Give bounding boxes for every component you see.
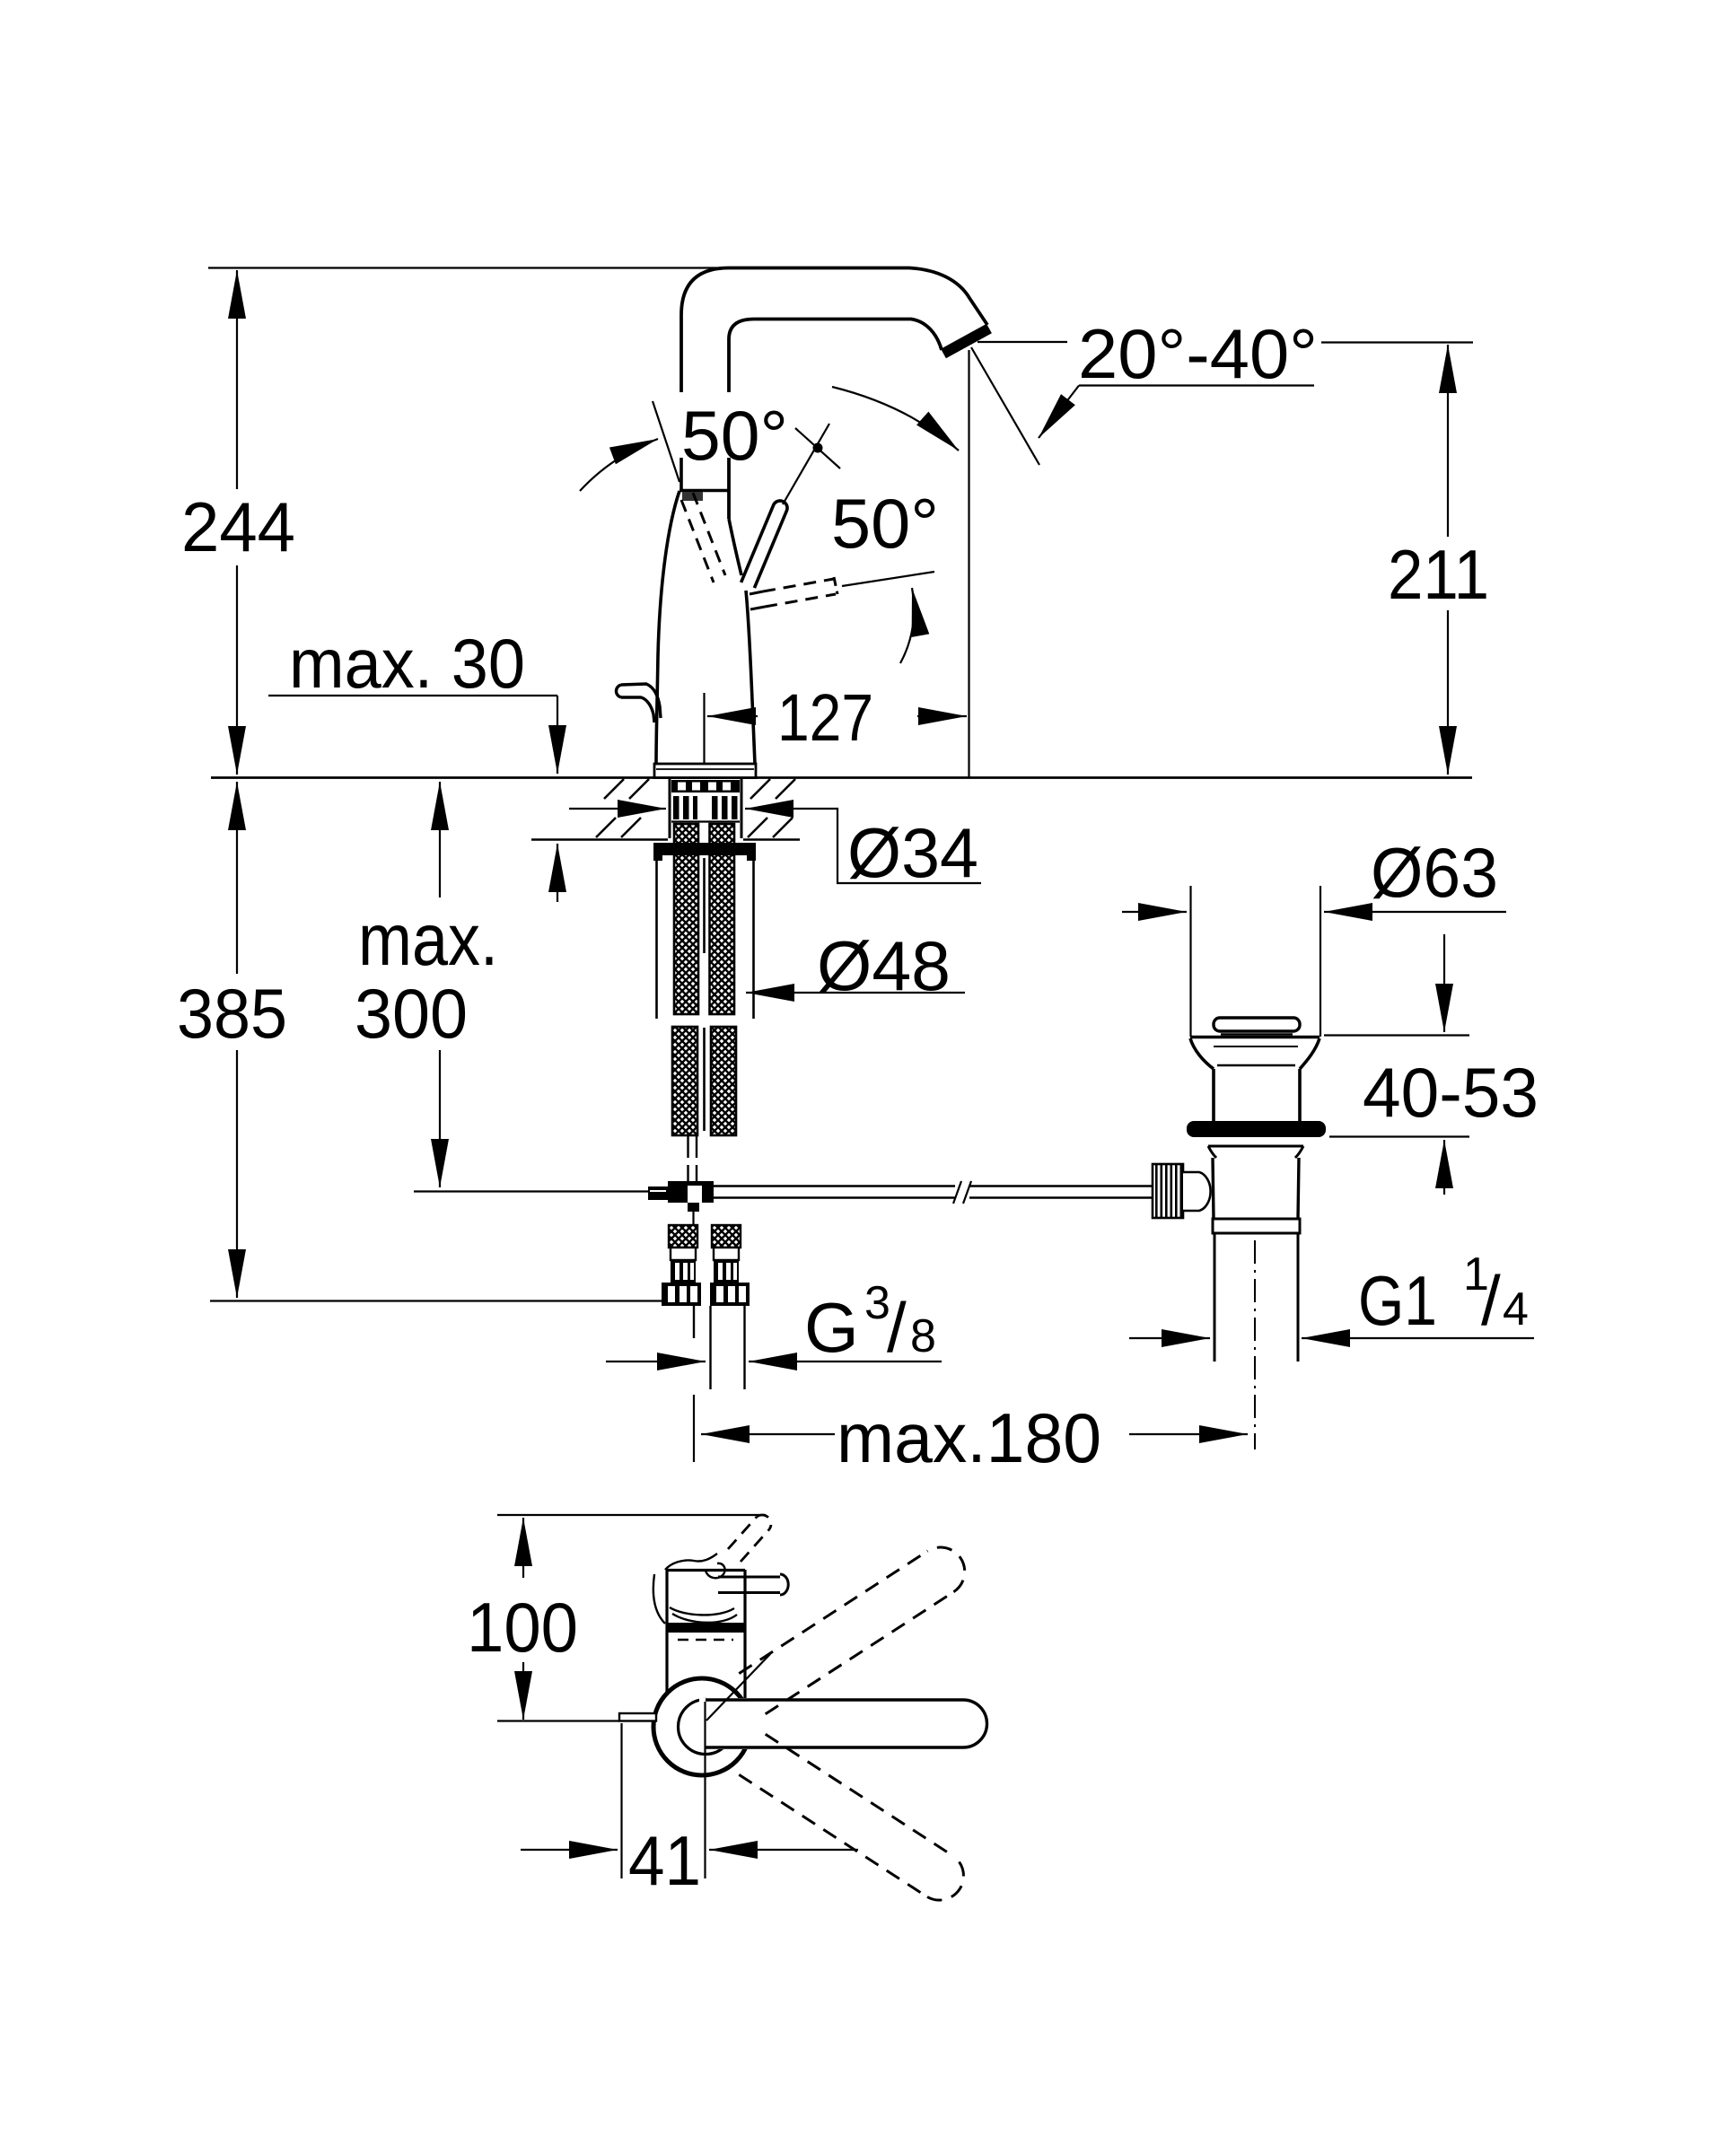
right connection tube G3/8 [709, 1306, 711, 1389]
drain flange left curve [1190, 1038, 1214, 1069]
top view cartridge band [668, 1623, 746, 1633]
dimension 211 upper segment with up arrow [1447, 345, 1449, 537]
dimension 244 top extension line [208, 267, 759, 268]
spout axis construction line [706, 1654, 770, 1721]
svg-text:G: G [804, 1288, 859, 1367]
body right flank below lever notch [746, 591, 755, 764]
dimension 244 vertical line upper segment with up arrow [236, 270, 238, 489]
angle 50-deg lower arc arrow [900, 588, 914, 663]
horizontal pull rod to drain [714, 1185, 955, 1186]
dimension 40-53 upper line [1324, 1034, 1469, 1036]
spout swung down (dashed capsule) [739, 1734, 963, 1900]
drain operating knob (knurled) [1153, 1164, 1183, 1218]
svg-text:max. 30: max. 30 [289, 624, 525, 703]
dimension 40-53 up arrow [1443, 1140, 1445, 1195]
max.30 up arrow below deck [557, 844, 558, 902]
spout outer-left lower segment [679, 458, 683, 491]
dimension max.180 right arrow [1129, 1433, 1248, 1435]
shank inner line [671, 820, 740, 822]
20-40 leader underline [1079, 384, 1314, 386]
lever lowered axis extension line [842, 572, 934, 586]
spout inner outline [729, 320, 942, 393]
svg-text:50°: 50° [831, 484, 939, 563]
svg-text:4: 4 [1503, 1283, 1529, 1335]
pull rod below hoses [687, 1134, 688, 1158]
dimension 40-53 down arrow [1443, 934, 1445, 1032]
dimension 100 upper segment with up arrow [522, 1518, 524, 1578]
spout outer outline [681, 268, 987, 393]
lever closed position (dashed) line 1 [693, 493, 725, 575]
spout bar (top view) [706, 1698, 963, 1701]
top view body rectangle [665, 1570, 668, 1694]
svg-text:Ø63: Ø63 [1371, 833, 1498, 912]
spout swung up (dashed capsule) [739, 1547, 964, 1714]
drain flange top [1190, 1036, 1320, 1038]
G3/8 right arrow and leader line [749, 1361, 942, 1362]
G1 1/4 right arrow and leader line [1302, 1337, 1534, 1339]
top view sketch loop [670, 1607, 734, 1615]
drain body walls [1213, 1158, 1214, 1219]
body left flank [656, 491, 679, 764]
deck bottom line right [743, 838, 800, 841]
svg-text:50°: 50° [681, 396, 788, 475]
svg-text:244: 244 [181, 487, 295, 566]
dimension 211 top terminator line [1321, 341, 1473, 343]
drain push cap [1214, 1018, 1300, 1031]
escutcheon inner line [656, 768, 754, 770]
dimension 100 top line [497, 1514, 766, 1516]
flexible hose right upper [710, 824, 735, 1014]
drain flange inner lines [1214, 1046, 1298, 1047]
diameter 34 left arrow [569, 808, 666, 810]
lever axis cross tick [795, 428, 840, 468]
hose connector right [712, 1225, 741, 1248]
dimension 127 left extension line (faucet centerline) [703, 693, 705, 764]
spout bar mask [699, 1698, 986, 1749]
lever lowered end cap dash [834, 577, 837, 594]
joint lower stub [688, 1203, 699, 1212]
body top line [679, 489, 729, 492]
diameter 63 right arrow [1324, 911, 1506, 913]
drain ring band [1213, 1219, 1300, 1233]
dimension max.300 lower segment with down arrow [439, 1050, 441, 1187]
dimension 385 lower segment with down arrow [236, 1050, 238, 1298]
20-40 leader arrow [1039, 386, 1079, 439]
max.30 leader underline [268, 695, 557, 696]
shank thread bars [673, 796, 738, 819]
dimension 385 upper segment with up arrow to deck [236, 782, 238, 974]
drain flange right curve [1300, 1038, 1320, 1069]
washer leg left [655, 861, 658, 1019]
dimension 41 left extension line [620, 1723, 622, 1878]
G1 1/4 left arrow [1129, 1337, 1210, 1339]
diameter 63 left arrow [1122, 911, 1187, 913]
left nipple stub [693, 1306, 695, 1338]
lever axis construction line [783, 424, 829, 504]
mounting shank left wall [669, 778, 671, 838]
diameter 48 leader with left arrow [746, 992, 965, 994]
pull rod joint block [668, 1181, 714, 1203]
svg-text:127: 127 [777, 680, 873, 755]
dimension 127 left arrow [707, 715, 758, 717]
dimension max.180 left extension line [693, 1395, 695, 1462]
svg-text:41: 41 [628, 1821, 701, 1900]
lever lowered position dashed edge 2 [750, 607, 765, 609]
flexible hose left lower [672, 1027, 697, 1135]
pull rod end cap [648, 1186, 668, 1200]
svg-text:300: 300 [355, 974, 468, 1053]
svg-text:20°-40°: 20°-40° [1078, 314, 1318, 393]
svg-text:8: 8 [910, 1310, 936, 1362]
diameter 63 right extension line [1320, 886, 1321, 1037]
lever closed position tip (dark mark) [682, 492, 703, 501]
svg-text:100: 100 [467, 1588, 578, 1667]
pull rod pin (top view) [619, 1713, 656, 1721]
drain seal ring [1187, 1121, 1326, 1137]
dimension 211 lower segment with down arrow [1447, 610, 1449, 775]
pull rod segment between hoses [703, 858, 706, 953]
svg-text:/: / [887, 1288, 907, 1367]
spout swing construction diagonal [971, 347, 1039, 465]
svg-text:max.180: max.180 [837, 1398, 1101, 1477]
lever lowered position dashed edge 1 [750, 591, 763, 594]
hose connector left [669, 1225, 697, 1248]
dimension 385 bottom line [210, 1300, 662, 1301]
shank thread band [671, 780, 740, 792]
dimension 100 lower segment with down arrow [522, 1662, 524, 1720]
deck hatching right [748, 779, 795, 837]
svg-text:/: / [1481, 1261, 1501, 1340]
svg-text:211: 211 [1388, 535, 1489, 614]
top view body circle [679, 1700, 733, 1755]
drain below-seal step [1208, 1145, 1303, 1148]
dimension 41 right extension line [704, 1702, 706, 1878]
max.30 leader drop with down arrow to deck [557, 696, 558, 714]
dimension max.180 left arrow [701, 1433, 835, 1435]
handle 50-deg extension line [653, 401, 679, 482]
lever axis dot [813, 443, 823, 453]
mounting shank right wall [741, 778, 743, 838]
svg-text:385: 385 [177, 974, 287, 1053]
svg-text:max.: max. [358, 899, 498, 981]
rod break marks [953, 1181, 961, 1204]
flexible hose right lower [711, 1027, 736, 1135]
top view sketch curve left [653, 1574, 665, 1624]
handle 50-deg arc arrow [580, 439, 658, 491]
diameter 34 right arrow with leader [745, 808, 834, 810]
svg-text:40-53: 40-53 [1363, 1053, 1539, 1132]
top view handle pin [718, 1576, 780, 1579]
deck top line [211, 776, 1472, 779]
washer leg right [752, 861, 755, 1019]
top view sketch curl top [665, 1554, 717, 1570]
svg-text:G1: G1 [1358, 1261, 1437, 1340]
union nut right [710, 1283, 750, 1306]
dimension 244 vertical line lower segment with down arrow at deck [236, 565, 238, 775]
body right shoulder curve [729, 519, 741, 575]
dimension 127 right arrow [917, 715, 967, 717]
top view dashed handle tip above [728, 1515, 771, 1562]
spout swivel arc arrow (right) [832, 387, 959, 451]
spout tip vertical extension line [968, 350, 969, 777]
spout aerator outlet face [943, 328, 989, 354]
escutcheon base plate [654, 764, 756, 778]
pull rod knob (side view) [621, 684, 661, 718]
dimension 100 bottom line [497, 1720, 619, 1721]
max.300 bottom reference line [414, 1190, 648, 1192]
svg-text:Ø34: Ø34 [847, 813, 978, 892]
mounting nut (horseshoe) [653, 843, 756, 855]
dimension 41 right arrow [709, 1849, 858, 1851]
drain centerline [1254, 1240, 1256, 1449]
spout tip leader line [978, 341, 1067, 343]
deck bottom line left [531, 838, 668, 841]
drain knob connector [1183, 1172, 1211, 1211]
top view dashed inner line [678, 1639, 733, 1642]
dimension 40-53 lower line [1329, 1135, 1469, 1137]
lever closed position (dashed) line 2 [681, 500, 714, 582]
top view escutcheon circle [653, 1678, 750, 1775]
dimension max.300 upper segment with up arrow to deck [439, 782, 441, 897]
drain neck walls [1212, 1069, 1215, 1122]
deck hatching left [596, 779, 649, 837]
G3/8 left arrow [606, 1361, 706, 1362]
union nut left [662, 1283, 701, 1306]
lever handle open position [741, 501, 787, 588]
flexible hose left upper [674, 824, 698, 1014]
drain tailpipe walls [1214, 1233, 1216, 1362]
svg-text:Ø48: Ø48 [817, 926, 951, 1005]
diameter 63 left extension line [1189, 886, 1191, 1037]
dimension 41 left arrow [521, 1849, 618, 1851]
